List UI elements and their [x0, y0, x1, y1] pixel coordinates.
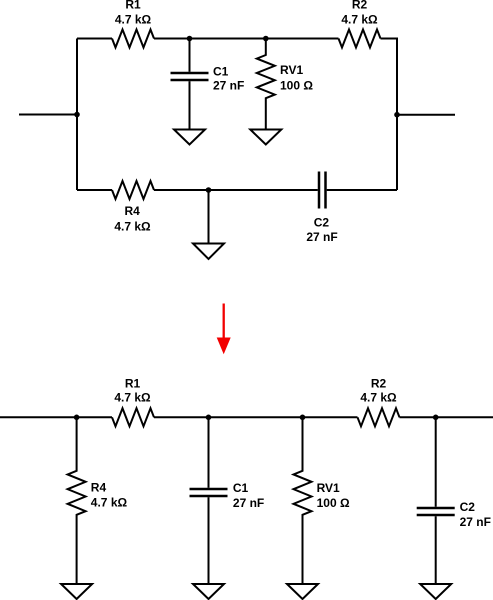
node: right output junction [394, 112, 400, 118]
svg-text:27 nF: 27 nF [233, 496, 264, 510]
resistor R2 (4.7 kOhm, top rail) [339, 0, 381, 48]
svg-text:RV1: RV1 [317, 481, 340, 495]
wire: bottom rail middle segment [154, 189, 318, 191]
svg-text:4.7 kΩ: 4.7 kΩ [91, 496, 128, 510]
resistor RV1 (100 Ohm, shunt) [257, 39, 314, 130]
svg-text:C1: C1 [233, 481, 249, 495]
resistor R1 (4.7 kOhm, main rail) [112, 376, 154, 426]
resistor R4 (4.7 kOhm, shunt) [68, 417, 128, 584]
wire: top rail middle segment [154, 38, 339, 40]
svg-text:27 nF: 27 nF [213, 79, 244, 93]
ground under C1 [174, 130, 205, 145]
resistor R2 (4.7 kOhm, main rail) [358, 376, 400, 426]
ground under C2 [420, 584, 451, 599]
wire: main rail right segment [400, 416, 493, 418]
svg-text:27 nF: 27 nF [460, 515, 491, 529]
arrow (red, pointing down) [217, 304, 231, 355]
svg-text:4.7 kΩ: 4.7 kΩ [341, 12, 378, 26]
wire: bottom rail left segment [77, 189, 112, 191]
resistor RV1 (100 Ohm, shunt) [294, 417, 350, 584]
svg-text:R1: R1 [125, 0, 141, 11]
node: RV1 tap on top rail [263, 36, 269, 42]
svg-text:100 Ω: 100 Ω [280, 79, 313, 93]
ground under R4 [61, 584, 92, 599]
svg-text:4.7 kΩ: 4.7 kΩ [360, 391, 397, 405]
ground under RV1 [287, 584, 318, 599]
svg-text:C2: C2 [460, 500, 476, 514]
ground under RV1 [250, 130, 281, 145]
wire: top rail right segment and right vertical rail [381, 39, 398, 191]
svg-text:27 nF: 27 nF [306, 230, 337, 244]
svg-text:R4: R4 [125, 204, 141, 218]
node: C2 tap [433, 415, 439, 421]
wire: main rail middle segment [154, 416, 358, 418]
wire: left input stub [19, 114, 77, 116]
ground under bottom rail [193, 244, 224, 260]
svg-text:4.7 kΩ: 4.7 kΩ [114, 391, 151, 405]
node: ground tap on bottom rail [206, 187, 212, 193]
svg-text:RV1: RV1 [280, 63, 303, 77]
capacitor C1 (27 nF, shunt) [190, 417, 265, 584]
resistor R4 (4.7 kOhm, bottom rail) [112, 181, 154, 233]
node: C1 tap on top rail [187, 36, 193, 42]
wire: ground stub from bottom rail [208, 190, 210, 244]
wire: top rail left segment [77, 38, 112, 40]
svg-text:R4: R4 [91, 481, 107, 495]
svg-text:4.7 kΩ: 4.7 kΩ [115, 12, 152, 26]
node: left input junction [74, 112, 80, 118]
svg-text:4.7 kΩ: 4.7 kΩ [114, 219, 151, 233]
svg-text:C1: C1 [213, 65, 229, 79]
wire: right output stub [397, 114, 455, 116]
resistor R1 (4.7 kOhm, top rail) [112, 0, 154, 48]
ground under C1 [193, 584, 224, 599]
capacitor C2 (27 nF, shunt) [417, 417, 491, 584]
wire: bottom rail right segment [327, 189, 397, 191]
wire: main rail left segment [0, 416, 112, 418]
capacitor C2 (27 nF, series in bottom rail) [306, 172, 337, 245]
svg-text:R1: R1 [125, 376, 141, 390]
svg-text:C2: C2 [314, 216, 330, 230]
node: R4 tap [74, 415, 80, 421]
node: C1 tap [206, 415, 212, 421]
svg-text:100 Ω: 100 Ω [317, 496, 350, 510]
svg-text:R2: R2 [371, 376, 387, 390]
capacitor C1 (27 nF, shunt) [171, 39, 245, 130]
node: RV1 tap [300, 415, 306, 421]
wire: left vertical rail [76, 39, 78, 191]
svg-text:R2: R2 [352, 0, 368, 11]
